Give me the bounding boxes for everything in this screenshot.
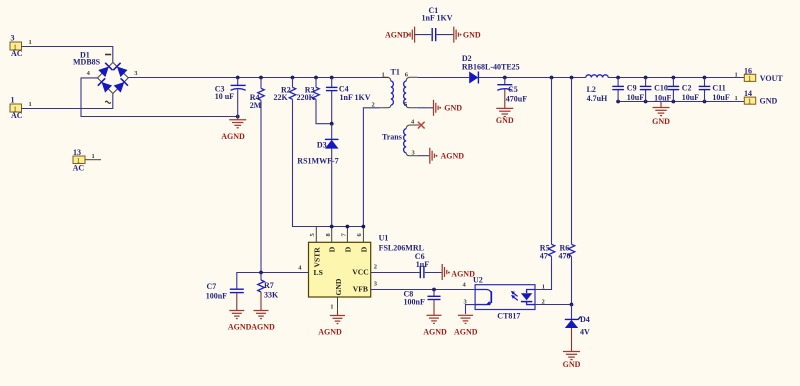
svg-text:GND: GND <box>334 278 343 295</box>
diode top-left of D1 <box>98 66 109 77</box>
svg-text:AC: AC <box>11 49 23 58</box>
svg-text:16: 16 <box>744 66 752 75</box>
svg-text:D: D <box>359 246 368 252</box>
svg-text:1: 1 <box>29 101 32 108</box>
svg-text:GND: GND <box>463 30 481 39</box>
zener diode D4 <box>565 305 581 352</box>
pin 8 stub of U1 <box>331 227 333 243</box>
node junction C4 top <box>330 76 334 80</box>
~ mark bottom of D1 <box>105 101 111 103</box>
svg-text:VCC: VCC <box>352 268 368 277</box>
svg-text:VOUT: VOUT <box>760 74 784 83</box>
svg-text:T1: T1 <box>391 68 400 77</box>
svg-text:D2: D2 <box>462 54 472 63</box>
svg-text:1: 1 <box>29 39 32 46</box>
wire bridge pin3 to T1 pin1 (primary rail) <box>128 77 389 79</box>
svg-text:10uF: 10uF <box>627 93 644 102</box>
wire C1 right <box>437 34 454 36</box>
svg-text:1: 1 <box>11 95 15 104</box>
svg-text:47: 47 <box>540 252 548 261</box>
capacitor C1 with power ports <box>385 27 481 43</box>
port AC pin13 (unconnected) <box>73 148 101 173</box>
svg-text:1: 1 <box>382 71 385 78</box>
node junction R4 top <box>259 76 263 80</box>
wire L2 to VOUT <box>608 77 744 79</box>
svg-text:AC: AC <box>73 164 85 173</box>
node junction R2 top <box>291 76 295 80</box>
svg-text:10 uF: 10 uF <box>215 92 234 101</box>
T1 secondary winding (pins 6-5) <box>406 77 417 81</box>
svg-text:C9: C9 <box>627 84 637 93</box>
svg-text:GND: GND <box>760 97 778 106</box>
no-connect X on T1 pin 4 <box>418 122 425 129</box>
svg-text:VSTR: VSTR <box>312 247 321 268</box>
port VOUT pin16 <box>744 66 783 83</box>
resistor R6 <box>568 78 574 305</box>
capacitor C6 <box>420 266 442 278</box>
svg-text:U1: U1 <box>379 234 389 243</box>
U1 pin1 GND stub <box>337 297 339 310</box>
svg-text:D: D <box>328 246 337 252</box>
svg-text:AGND: AGND <box>441 152 465 161</box>
ground AGND below C7 <box>228 311 252 332</box>
node junction R3 top <box>314 76 318 80</box>
wire T1 pin2 to U1 drain <box>363 108 380 227</box>
svg-text:1: 1 <box>735 95 738 102</box>
capacitor C1 plates <box>431 28 433 41</box>
node junction pin6 <box>362 225 366 229</box>
ground AGND below C8 <box>423 315 447 336</box>
svg-text:L2: L2 <box>587 85 596 94</box>
node junction C8 <box>432 288 436 292</box>
svg-text:AGND: AGND <box>385 30 409 39</box>
resistor R3 <box>313 78 332 124</box>
svg-text:1: 1 <box>542 284 545 291</box>
ground GND below output rail <box>652 102 670 127</box>
svg-text:D4: D4 <box>580 315 590 324</box>
diode D3 <box>325 124 339 227</box>
svg-text:GND: GND <box>652 117 670 126</box>
svg-text:MDB8S: MDB8S <box>73 58 101 67</box>
svg-text:AGND: AGND <box>451 270 475 279</box>
svg-text:4.7uH: 4.7uH <box>587 94 608 103</box>
svg-text:C5: C5 <box>508 85 518 94</box>
svg-text:22K: 22K <box>274 93 289 102</box>
svg-text:1: 1 <box>92 153 95 160</box>
svg-text:2: 2 <box>374 264 377 271</box>
ground AGND below opto pin3 <box>454 315 478 336</box>
capacitor C5 <box>497 78 512 109</box>
wire AC2 to bridge bottom <box>22 94 113 109</box>
U2 light arrows <box>513 293 517 297</box>
wire U1 top pins bus <box>293 226 364 228</box>
svg-text:3: 3 <box>11 33 15 42</box>
svg-text:AGND: AGND <box>318 327 342 336</box>
ground AGND below C3 <box>221 117 246 141</box>
node junction D4 <box>570 303 574 307</box>
svg-text:CT817: CT817 <box>497 312 520 321</box>
node junction C3 top <box>236 76 240 80</box>
node junction R7 top <box>259 271 263 275</box>
diode bottom-left of D1 <box>102 82 113 93</box>
svg-text:C7: C7 <box>207 282 217 291</box>
pin 6 stub of U1 <box>362 227 364 243</box>
capacitor C4 <box>326 78 338 124</box>
svg-text:10uF: 10uF <box>712 93 729 102</box>
svg-text:470: 470 <box>559 252 571 261</box>
svg-text:RB168L-40TE25: RB168L-40TE25 <box>462 63 520 72</box>
svg-text:AGND: AGND <box>221 132 245 141</box>
bridge rectifier D1 MDB8S <box>98 55 129 104</box>
wire opto pin2 to D4 <box>535 304 572 306</box>
wire U1 LS pin4 <box>237 273 309 289</box>
svg-text:1nF 1KV: 1nF 1KV <box>422 14 453 23</box>
svg-text:GND: GND <box>444 104 462 113</box>
svg-text:1uF: 1uF <box>416 260 429 269</box>
power port AGND at C6 <box>442 264 475 280</box>
svg-text:R7: R7 <box>264 281 274 290</box>
svg-text:U2: U2 <box>473 276 483 285</box>
resistor R7 <box>258 273 264 311</box>
resistor R2 <box>289 78 316 227</box>
capacitor C8 <box>428 290 441 316</box>
ground GND below D4 <box>563 352 581 369</box>
ground AGND below R7 <box>251 311 275 332</box>
node junction pin7 <box>346 225 350 229</box>
wire U1 VCC to C6 <box>371 272 420 274</box>
U2 LED <box>527 290 535 294</box>
svg-text:AGND: AGND <box>251 323 275 332</box>
node junctions output caps bottom <box>616 100 620 104</box>
svg-text:AGND: AGND <box>423 327 447 336</box>
svg-text:1: 1 <box>735 72 738 79</box>
T1 primary winding (pins 1-2) <box>383 77 391 81</box>
node junction D3 top <box>330 122 334 126</box>
capacitor C7 <box>230 289 244 310</box>
power port AGND at T1 pin3 <box>418 148 465 164</box>
capacitor C10 <box>640 78 652 102</box>
svg-text:Trans: Trans <box>382 132 402 141</box>
pin 7 stub of U1 <box>346 227 348 243</box>
svg-text:AC: AC <box>11 111 23 120</box>
wire T1 pin6 to D2 <box>418 77 469 79</box>
ground GND below C5 <box>496 108 514 125</box>
diode top-right of D1 <box>117 66 128 77</box>
svg-text:10uF: 10uF <box>682 93 699 102</box>
svg-text:10uF: 10uF <box>654 93 671 102</box>
svg-text:470uF: 470uF <box>506 95 527 104</box>
svg-text:1nF 1KV: 1nF 1KV <box>340 93 371 102</box>
node junction pin8 <box>330 225 334 229</box>
node junction AGND rail <box>236 115 240 119</box>
wire bridge pin4 to AGND rail <box>81 78 238 117</box>
capacitor C2 <box>668 78 680 102</box>
wire output bottom rail <box>618 101 744 103</box>
wire U1 VFB to opto <box>371 289 475 291</box>
wire D2 to L2 <box>478 77 585 79</box>
node junction R6 top <box>570 76 574 80</box>
svg-text:D3: D3 <box>317 141 327 150</box>
U2 phototransistor <box>475 290 491 293</box>
optocoupler U2 CT817 <box>475 285 535 310</box>
T1 aux winding (pins 4-3) <box>406 125 419 129</box>
wire AC1 to bridge top <box>22 47 113 63</box>
svg-text:RS1MWF-7: RS1MWF-7 <box>297 156 338 165</box>
svg-text:GND: GND <box>563 360 581 369</box>
svg-text:13: 13 <box>73 148 81 157</box>
svg-text:C2: C2 <box>682 84 692 93</box>
svg-text:LS: LS <box>314 268 323 277</box>
svg-text:VFB: VFB <box>353 285 368 294</box>
node junction R5 top <box>550 76 554 80</box>
capacitor C9 <box>612 78 624 102</box>
svg-text:100nF: 100nF <box>404 298 425 307</box>
svg-text:4V: 4V <box>580 328 590 337</box>
svg-text:1: 1 <box>748 99 752 106</box>
svg-text:33K: 33K <box>264 290 279 299</box>
capacitor C3 <box>231 78 246 117</box>
svg-text:2M: 2M <box>250 101 262 110</box>
transformer T1 <box>380 77 419 155</box>
capacitor C11 <box>699 78 711 102</box>
resistor R4 <box>258 78 264 273</box>
resistor R5 <box>535 78 555 290</box>
svg-text:AGND: AGND <box>454 327 478 336</box>
svg-text:AGND: AGND <box>228 323 252 332</box>
svg-text:100nF: 100nF <box>206 292 227 301</box>
node junction C5 <box>503 76 507 80</box>
ground AGND below U1 pin1 <box>318 310 345 337</box>
wire C1 left <box>415 34 432 36</box>
svg-text:220K: 220K <box>297 93 316 102</box>
svg-text:D: D <box>343 246 352 252</box>
svg-text:1: 1 <box>748 76 752 83</box>
port AC pin1 (left, lower) <box>10 95 23 120</box>
minus mark top of D1 <box>105 54 111 56</box>
inductor L2 <box>586 75 608 78</box>
svg-text:1: 1 <box>330 304 333 311</box>
svg-text:14: 14 <box>744 89 752 98</box>
port GND pin14 <box>744 89 778 106</box>
wire opto pin3 to AGND <box>466 305 476 314</box>
port AC pin3 (top-left) <box>10 33 23 58</box>
svg-text:C10: C10 <box>654 84 668 93</box>
power port GND right of C1 <box>453 27 455 43</box>
svg-text:GND: GND <box>496 116 514 125</box>
diode bottom-right of D1 <box>114 82 125 93</box>
power port GND at T1 pin5 <box>418 100 463 116</box>
svg-text:C11: C11 <box>712 84 725 93</box>
op chip U1 FSL206MRL body <box>309 242 371 297</box>
node junctions output caps top <box>616 76 620 80</box>
diode D2 <box>469 72 478 84</box>
pin 5 stub of U1 <box>315 227 317 243</box>
